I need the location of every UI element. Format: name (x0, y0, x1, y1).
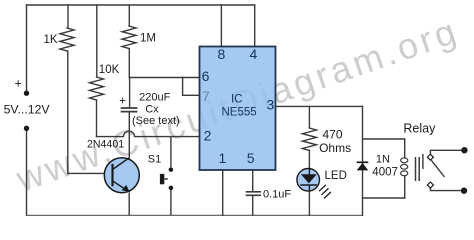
wire 10K down to pin2 corner (96, 100, 98, 137)
relay core bars (416, 157, 420, 181)
wire 1M branch top (128, 5, 130, 26)
svg-text:1K: 1K (44, 34, 58, 46)
svg-text:4: 4 (250, 46, 258, 62)
wire relay top horizontal (363, 138, 405, 140)
S1 wire upper (170, 137, 172, 167)
svg-text:6: 6 (202, 68, 210, 84)
capacitor Cx 220uF plates (122, 107, 137, 109)
wire cap bottom to collector (128, 112, 130, 158)
S1 wire lower (170, 190, 172, 215)
svg-text:8: 8 (218, 46, 226, 62)
wire left rail upper (26, 5, 28, 91)
svg-text:470: 470 (323, 128, 343, 142)
svg-text:Relay: Relay (403, 122, 436, 136)
wire pin3 corner down to diode top (362, 106, 364, 215)
wire top rail (27, 4, 255, 6)
wire pin4 drop (254, 5, 256, 47)
wire 1K branch top (67, 5, 69, 28)
transistor base bar (111, 164, 113, 186)
wire left rail lower (26, 130, 28, 215)
svg-text:1M: 1M (140, 33, 156, 45)
svg-text:10K: 10K (99, 64, 120, 76)
wire 1K to base corner (67, 51, 69, 173)
wire pin7 step (183, 78, 200, 96)
svg-text:S1: S1 (148, 153, 161, 165)
wire 1M to pin6 junction (128, 49, 130, 78)
svg-text:NE555: NE555 (222, 107, 257, 119)
relay bottom stem (430, 188, 460, 191)
wire 470 to LED (308, 151, 310, 170)
relay coil leads (404, 139, 406, 158)
op IC U1 NE555 body (200, 47, 276, 171)
svg-text:3: 3 (267, 96, 275, 112)
wire relay bottom horizontal (363, 197, 405, 199)
relay bottom pivot diamond (427, 182, 433, 188)
relay top pivot diamond (427, 154, 433, 160)
relay bottom terminal dot (461, 188, 467, 194)
svg-text:7: 7 (202, 88, 210, 104)
wire pin5 down (252, 170, 254, 191)
LED inner wire segments (308, 169, 310, 192)
wire pin8 drop (220, 5, 222, 47)
relay contact top stem (430, 150, 461, 154)
svg-text:(See text): (See text) (132, 115, 180, 127)
switch S1 bottom contact dot (169, 186, 174, 191)
switch S1 button (160, 174, 164, 184)
diode D2 1N4007 (357, 163, 369, 171)
transistor emitter stroke (113, 181, 130, 192)
svg-text:IC: IC (231, 94, 243, 106)
wire 10K branch top (96, 5, 98, 77)
LED light rays (319, 185, 331, 199)
resistor R 1M (122, 26, 136, 49)
wire LED to ground rail (308, 191, 310, 215)
wire pin2 horizontal with hop over collector (97, 131, 200, 137)
svg-text:2N4401: 2N4401 (87, 138, 124, 150)
svg-text:0.1uF: 0.1uF (263, 189, 291, 201)
svg-text:220uF: 220uF (139, 91, 170, 103)
svg-text:5: 5 (247, 150, 255, 166)
switch S1 top contact dot (169, 167, 174, 172)
LED cathode bar (300, 184, 317, 186)
relay armature diagonal (431, 160, 444, 177)
wire 0.1uF to ground rail (252, 196, 254, 216)
wire pin6 horizontal (129, 77, 199, 79)
wire cap Cx top lead (129, 78, 131, 108)
resistor R 10K (90, 77, 104, 100)
svg-text:+: + (119, 95, 126, 107)
transistor collector stroke (113, 158, 130, 170)
transistor Q1 2N4401 circle (104, 158, 139, 193)
svg-text:4007: 4007 (372, 166, 398, 178)
svg-text:+: + (15, 77, 22, 91)
svg-text:1N: 1N (376, 153, 390, 165)
resistor R 1K (60, 28, 74, 51)
svg-text:Cx: Cx (145, 103, 159, 115)
resistor R 470 (302, 128, 316, 151)
wire bottom rail (27, 214, 363, 216)
wire base horizontal (68, 172, 105, 174)
node supply + terminal dot (24, 91, 29, 96)
node supply lower terminal dot (24, 126, 29, 131)
wire pin1 to ground rail (222, 170, 224, 215)
transistor emitter arrowhead (122, 185, 130, 192)
svg-text:2: 2 (204, 127, 212, 143)
svg-text:LED: LED (325, 170, 347, 182)
wire emitter to ground rail (128, 193, 130, 216)
LED D1 circle (297, 169, 320, 192)
relay coil loops (401, 158, 408, 176)
svg-text:5V...12V: 5V...12V (4, 103, 51, 117)
svg-text:Ohms: Ohms (319, 141, 351, 155)
relay armature bar (422, 154, 424, 169)
wire pin3 horizontal (276, 105, 363, 107)
capacitor 0.1uF plates (247, 191, 261, 193)
svg-text:1: 1 (219, 150, 227, 166)
wire 470 branch down (308, 106, 310, 128)
LED triangle (301, 174, 317, 183)
relay top terminal dot (461, 147, 467, 153)
